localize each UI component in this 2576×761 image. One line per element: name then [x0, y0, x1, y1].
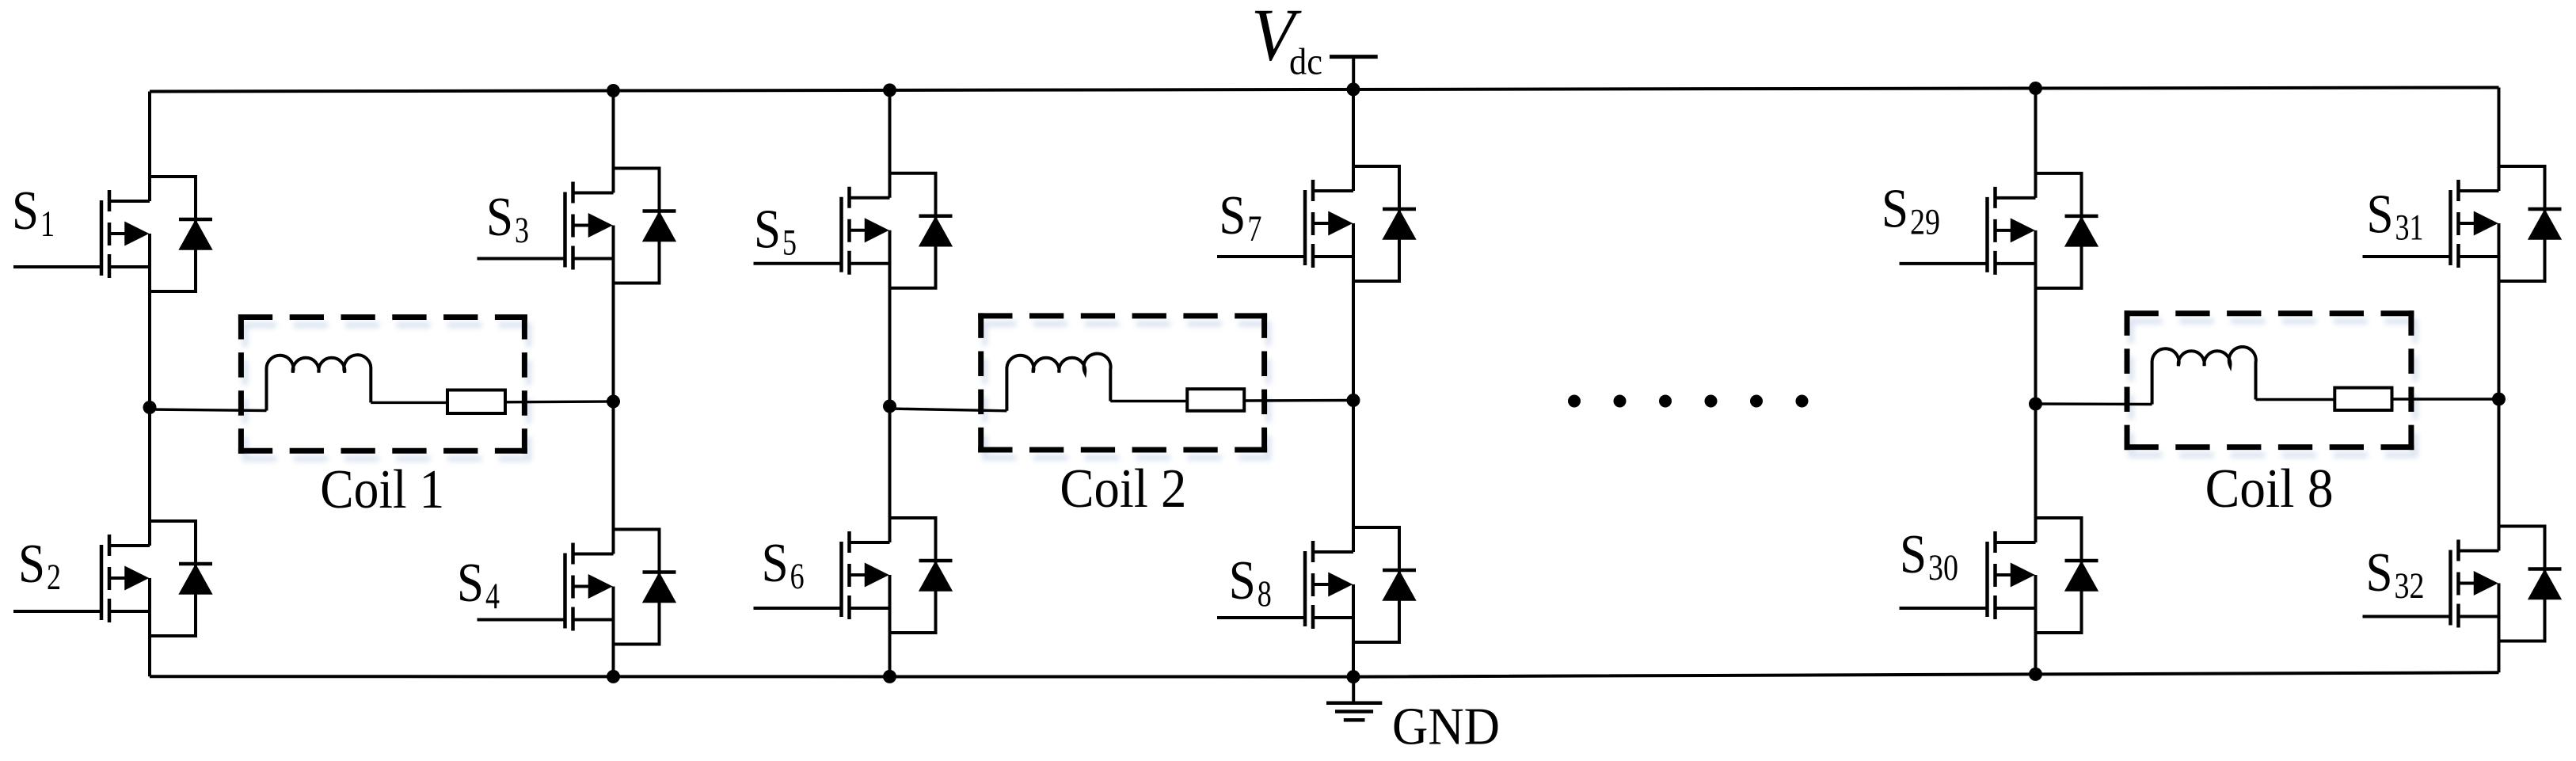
- junction node top B: [607, 84, 620, 97]
- transistor S6: [754, 518, 953, 633]
- wire mid node E to coil 8: [2036, 402, 2152, 405]
- junction node mid B: [607, 395, 620, 409]
- wire resistor 2 to node D: [1244, 399, 1353, 402]
- inductor L8: [2152, 347, 2256, 405]
- coil box 2 shadow: [982, 321, 1271, 460]
- label S5: [754, 200, 797, 264]
- transistor S7: [1217, 166, 1416, 281]
- junction node mid C: [883, 400, 896, 413]
- svg-text:29: 29: [1910, 201, 1940, 242]
- wire inductor to resistor 8: [2256, 398, 2335, 401]
- junction node top E: [2029, 82, 2042, 95]
- ground: [1326, 677, 1382, 721]
- svg-text:S: S: [2366, 542, 2393, 603]
- junction node bottom C: [883, 670, 896, 683]
- junction node bottom B: [607, 670, 620, 683]
- junction node bottom E: [2029, 668, 2042, 681]
- svg-text:5: 5: [782, 223, 797, 264]
- junction node top C: [883, 83, 896, 97]
- svg-text:6: 6: [790, 556, 805, 597]
- transistor S2: [13, 521, 212, 636]
- svg-text:S: S: [754, 200, 781, 261]
- coil box 2 dashed outline: [978, 313, 1267, 452]
- svg-text:8: 8: [1258, 573, 1272, 615]
- wire leg B verticals: [612, 91, 615, 677]
- svg-text:S: S: [457, 553, 484, 614]
- coil box 8 shadow: [2129, 318, 2418, 458]
- Vdc supply terminal: [1330, 57, 1378, 92]
- transistor S30: [1900, 518, 2098, 633]
- label S7: [1219, 185, 1261, 249]
- label S31: [2367, 185, 2424, 249]
- svg-text:3: 3: [515, 210, 529, 251]
- junction node mid F: [2492, 393, 2506, 406]
- wire resistor to node B: [505, 400, 614, 403]
- svg-text:GND: GND: [1392, 697, 1500, 755]
- wire leg F verticals: [2498, 88, 2501, 673]
- junction node mid E: [2029, 398, 2042, 411]
- transistor S29: [1900, 173, 2098, 288]
- coil box 1 dashed outline: [238, 314, 527, 454]
- junction node top D: [1347, 82, 1360, 96]
- svg-text:S: S: [18, 534, 45, 595]
- svg-text:S: S: [1900, 524, 1927, 585]
- transistor S5: [754, 173, 953, 288]
- transistor S3: [478, 169, 676, 283]
- svg-text:1: 1: [40, 204, 55, 245]
- label S6: [762, 533, 805, 597]
- wire top rail Vdc bus: [150, 88, 2499, 92]
- junction node bottom D: [1347, 670, 1360, 683]
- transistor S8: [1217, 527, 1416, 642]
- svg-text:32: 32: [2395, 565, 2425, 607]
- coil box 1 shadow: [242, 322, 531, 462]
- svg-text:dc: dc: [1289, 41, 1322, 83]
- coil box 8 dashed outline: [2125, 310, 2414, 450]
- svg-text:Coil 1: Coil 1: [320, 459, 444, 520]
- label S1: [12, 181, 55, 245]
- wire resistor 8 to node F: [2392, 398, 2499, 400]
- svg-text:Coil 2: Coil 2: [1060, 459, 1186, 519]
- label S4: [457, 553, 500, 617]
- transistor S31: [2363, 166, 2562, 281]
- svg-text:S: S: [2367, 185, 2394, 245]
- svg-text:S: S: [762, 533, 789, 594]
- junction node mid A: [143, 401, 157, 414]
- label S29: [1882, 178, 1940, 242]
- svg-text:S: S: [1229, 550, 1256, 611]
- svg-text:S: S: [12, 181, 39, 242]
- wire mid node C to coil 2: [890, 409, 1007, 411]
- label S8: [1229, 550, 1272, 615]
- label S2: [18, 534, 61, 598]
- wire inductor to resistor 2: [1110, 400, 1187, 402]
- svg-text:7: 7: [1247, 208, 1261, 249]
- inductor L1: [266, 355, 371, 410]
- wire leg D verticals: [1352, 89, 1355, 677]
- resistor R2: [1187, 389, 1244, 411]
- resistor R8: [2334, 388, 2391, 410]
- label S3: [486, 187, 529, 251]
- transistor S4: [478, 530, 676, 645]
- transistor S1: [13, 177, 212, 291]
- wire leg A verticals: [148, 92, 151, 677]
- wire bottom rail GND bus: [150, 672, 2499, 676]
- svg-text:30: 30: [1928, 547, 1958, 588]
- inductor L2: [1006, 353, 1110, 410]
- svg-text:S: S: [486, 187, 513, 248]
- junction node mid D: [1347, 394, 1360, 407]
- label S30: [1900, 524, 1958, 588]
- svg-text:Coil 8: Coil 8: [2205, 459, 2334, 519]
- svg-text:2: 2: [47, 557, 61, 598]
- transistor S32: [2363, 527, 2562, 641]
- wire leg C verticals: [888, 90, 892, 677]
- svg-text:4: 4: [485, 576, 500, 617]
- wire inductor to resistor: [371, 401, 447, 404]
- ellipsis dots between phases: [1568, 395, 1809, 408]
- wire leg E verticals: [2034, 89, 2038, 675]
- svg-text:S: S: [1882, 178, 1908, 239]
- svg-text:31: 31: [2395, 207, 2424, 249]
- svg-text:S: S: [1219, 185, 1246, 246]
- wire mid node A to coil 1: [150, 409, 267, 411]
- label S32: [2366, 542, 2425, 607]
- resistor R1: [447, 390, 505, 414]
